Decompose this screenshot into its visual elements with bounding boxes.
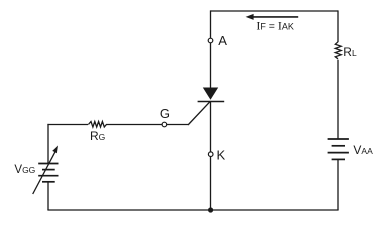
- svg-text:A: A: [218, 33, 227, 48]
- wire top horizontal: [211, 10, 339, 12]
- wire bottom horizontal: [47, 209, 338, 211]
- resistor RL: [335, 42, 341, 59]
- svg-text:G: G: [160, 106, 170, 121]
- wire gate horizontal left: [47, 124, 88, 126]
- wire left vertical lower: [47, 182, 49, 210]
- resistor RG: [88, 122, 106, 128]
- wire cathode vertical: [210, 102, 212, 211]
- svg-text:RG: RG: [90, 129, 105, 143]
- battery VAA: [328, 139, 349, 159]
- wire right vertical lower: [337, 159, 339, 210]
- node G terminal circle: [162, 122, 167, 127]
- svg-text:IF = IAK: IF = IAK: [256, 19, 293, 33]
- node A terminal circle: [208, 38, 213, 43]
- junction dot bottom node: [208, 207, 213, 212]
- node K terminal circle: [208, 152, 213, 157]
- wire gate diagonal to thyristor: [188, 101, 210, 125]
- wire right vertical middle: [337, 60, 339, 139]
- svg-text:VGG: VGG: [14, 164, 35, 176]
- wire right vertical upper: [337, 10, 339, 42]
- current arrow IF: [246, 14, 299, 20]
- wire anode vertical: [210, 10, 212, 88]
- variable-source arrow through VGG: [33, 146, 58, 195]
- svg-text:VAA: VAA: [353, 143, 373, 157]
- battery VGG: [38, 164, 58, 182]
- svg-text:RL: RL: [343, 45, 357, 59]
- wire gate horizontal right: [106, 124, 188, 126]
- thyristor SCR cathode bar: [198, 101, 225, 103]
- svg-text:K: K: [217, 147, 226, 162]
- thyristor SCR triangle: [203, 88, 218, 100]
- wire left vertical upper: [47, 124, 49, 164]
